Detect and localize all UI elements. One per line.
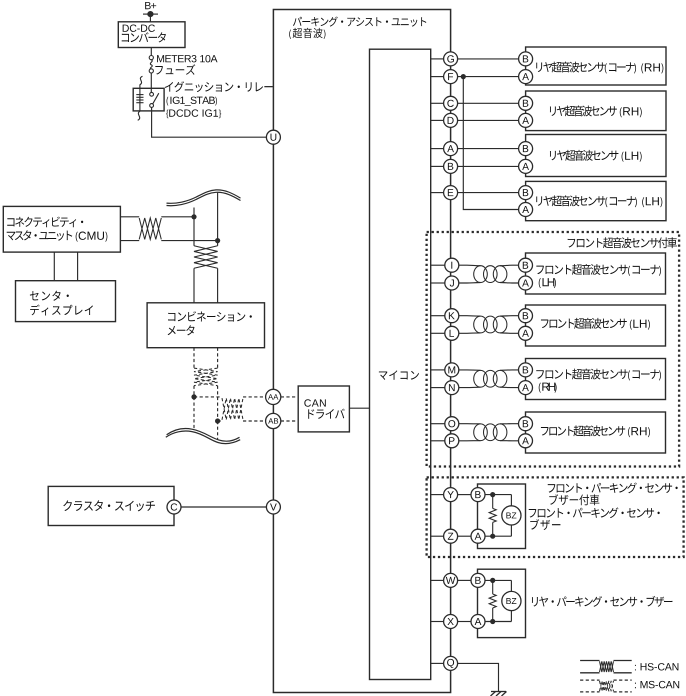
wire MS-CAN bbox=[243, 420, 266, 422]
rear sensor LH box bbox=[526, 135, 666, 177]
pin B bbox=[519, 186, 533, 200]
terminal N bbox=[445, 381, 459, 395]
pin A bbox=[519, 326, 533, 340]
wire MS-CAN bbox=[217, 421, 219, 439]
wire bbox=[161, 240, 217, 242]
pin B bbox=[471, 573, 485, 587]
rear parking buzzer box+resistor+BZ bbox=[478, 569, 526, 637]
front parking buzzer box+resistor+BZ bbox=[478, 484, 526, 549]
label: rear ultrasonic RH bbox=[550, 105, 642, 117]
label: with front parking sensor buzzer2 bbox=[549, 494, 599, 505]
wire bbox=[463, 77, 518, 210]
node junction F bbox=[461, 74, 466, 79]
wire MS-CAN bbox=[281, 420, 298, 422]
front sensor LH box bbox=[526, 305, 666, 346]
label: converter bbox=[122, 32, 166, 42]
twisted pair bbox=[459, 316, 519, 334]
wire bbox=[431, 621, 444, 623]
terminal K bbox=[445, 309, 459, 323]
parking assist unit box bbox=[273, 10, 450, 693]
pin A bbox=[519, 381, 533, 395]
twisted pair HS-CAN bbox=[139, 218, 161, 239]
label: (IG1_STAB) bbox=[167, 97, 217, 106]
pin B bbox=[519, 96, 533, 110]
wire bbox=[431, 387, 445, 389]
rear sensor RH box bbox=[526, 91, 666, 131]
label: MS-CAN bbox=[635, 681, 679, 688]
terminal C bbox=[167, 500, 181, 514]
wire bbox=[431, 662, 444, 664]
wire bbox=[193, 208, 195, 246]
label: DC-DC bbox=[123, 24, 155, 31]
terminal W bbox=[444, 573, 458, 587]
wire bbox=[431, 369, 445, 371]
terminal G bbox=[444, 52, 458, 66]
label: fuse bbox=[155, 64, 195, 75]
wire bbox=[458, 535, 471, 537]
wire bbox=[431, 76, 519, 78]
label: ignition relay bbox=[165, 81, 273, 92]
wire bbox=[431, 535, 444, 537]
fuse METER3 10A bbox=[149, 56, 153, 74]
wire bbox=[150, 73, 152, 94]
label: center bbox=[30, 291, 69, 301]
pin B bbox=[519, 363, 533, 377]
microcomputer box bbox=[370, 49, 431, 679]
node junction bbox=[191, 214, 196, 219]
label: (ultrasonic) bbox=[289, 28, 325, 39]
terminal AB bbox=[266, 413, 281, 428]
wire bbox=[349, 407, 369, 409]
terminal E bbox=[444, 186, 458, 200]
wire bbox=[193, 268, 195, 303]
wire bbox=[458, 621, 471, 623]
terminal Y bbox=[444, 488, 458, 502]
wire MS-CAN bbox=[281, 396, 298, 398]
legend HS-CAN symbol bbox=[580, 661, 632, 673]
wire bbox=[120, 216, 139, 218]
terminal M bbox=[445, 363, 459, 377]
terminal P bbox=[445, 434, 459, 448]
pin A bbox=[519, 434, 533, 448]
ground bbox=[491, 692, 507, 696]
terminal A bbox=[444, 142, 458, 156]
relay switch bbox=[150, 92, 159, 107]
front corner sensor RH box bbox=[526, 359, 666, 400]
pin A bbox=[519, 113, 533, 127]
label: front parking sensor buzzer2 bbox=[530, 519, 560, 530]
label: display bbox=[30, 305, 93, 316]
ignition relay box bbox=[133, 88, 164, 111]
label: (RH) bbox=[539, 383, 557, 393]
terminal V bbox=[266, 500, 280, 514]
node junction bbox=[191, 394, 196, 399]
wire bbox=[217, 268, 219, 303]
terminal L bbox=[445, 326, 459, 340]
wire bbox=[120, 240, 139, 242]
wire bbox=[431, 494, 444, 496]
rear corner sensor LH box bbox=[526, 181, 666, 220]
wire bbox=[161, 216, 194, 218]
label: master unit (CMU) bbox=[7, 230, 108, 242]
terminal C2 bbox=[444, 96, 458, 110]
twisted pair bbox=[459, 370, 519, 388]
wire MS-CAN bbox=[193, 386, 195, 397]
combination meter box bbox=[147, 303, 264, 348]
front corner sensor LH box bbox=[526, 253, 666, 294]
terminal J bbox=[445, 276, 459, 290]
node junction bbox=[215, 238, 220, 243]
terminal O bbox=[445, 417, 459, 431]
label: with front ultrasonic sensors bbox=[568, 237, 677, 248]
wire bbox=[431, 440, 445, 442]
terminal Z bbox=[444, 529, 458, 543]
connectivity master unit box bbox=[3, 206, 120, 252]
wire MS-CAN bbox=[217, 386, 219, 421]
DC-DC converter box bbox=[118, 22, 185, 48]
label: with front parking sensor buzzer1 bbox=[548, 482, 678, 493]
pin B bbox=[519, 258, 533, 272]
wire break wave bbox=[166, 429, 240, 444]
wire bbox=[77, 252, 79, 281]
wire bbox=[431, 264, 445, 266]
node junction bbox=[215, 418, 220, 423]
terminal F bbox=[444, 70, 458, 84]
terminal I bbox=[445, 258, 459, 272]
front sensor RH box bbox=[526, 412, 666, 453]
wire bbox=[431, 119, 519, 121]
wire MS-CAN bbox=[193, 348, 195, 368]
label: (LH) bbox=[539, 278, 556, 288]
label: front parking sensor buzzer1 bbox=[529, 507, 660, 518]
wire bbox=[217, 193, 219, 246]
label: front ultrasonic corner bbox=[536, 264, 661, 276]
pin B bbox=[519, 417, 533, 431]
label: combination bbox=[168, 311, 252, 321]
pin A bbox=[471, 529, 485, 543]
wire bbox=[431, 102, 519, 104]
pin A bbox=[519, 203, 533, 217]
terminal Q bbox=[444, 656, 458, 670]
wire bbox=[431, 332, 445, 334]
center display box bbox=[16, 281, 116, 322]
twisted pair HS-CAN bbox=[194, 246, 218, 268]
twisted pair bbox=[459, 424, 519, 441]
label: HS-CAN bbox=[635, 663, 678, 670]
pin A bbox=[471, 615, 485, 629]
wire bbox=[149, 14, 151, 22]
wire bbox=[431, 58, 519, 60]
label: front ultrasonic corner2 bbox=[536, 369, 661, 381]
legend MS-CAN symbol bbox=[580, 680, 632, 692]
rear corner sensor RH box bbox=[526, 47, 666, 85]
relay coil bbox=[136, 76, 143, 120]
label: METER3 10A bbox=[157, 55, 217, 62]
wire MS-CAN bbox=[243, 396, 266, 398]
cluster switch box bbox=[48, 486, 174, 525]
label: rear parking sensor buzzer bbox=[532, 596, 673, 607]
label: meter bbox=[168, 325, 195, 335]
label: front ultrasonic LH bbox=[541, 318, 650, 330]
twisted pair MS-CAN bbox=[194, 368, 218, 386]
label: front ultrasonic RH bbox=[541, 425, 650, 437]
label: driver bbox=[308, 409, 345, 419]
terminal X bbox=[444, 615, 458, 629]
label: rear ultrasonic corner LH bbox=[536, 195, 662, 207]
wire bbox=[431, 315, 445, 317]
dotted group: front ultrasonic sensors bbox=[427, 232, 679, 467]
terminal AA bbox=[266, 389, 281, 404]
wire bbox=[53, 252, 55, 281]
label: {DCDC IG1} bbox=[166, 109, 221, 118]
label: parking assist unit bbox=[293, 16, 426, 26]
pin B bbox=[519, 52, 533, 66]
label: cluster switch bbox=[63, 500, 155, 511]
wire bbox=[431, 165, 519, 167]
wire bbox=[458, 494, 471, 496]
CAN driver box bbox=[298, 386, 349, 432]
pin B bbox=[519, 309, 533, 323]
label: rear ultrasonic corner RH bbox=[536, 62, 663, 74]
label: B+ bbox=[145, 2, 156, 9]
wire MS-CAN bbox=[194, 396, 222, 398]
wire bbox=[152, 108, 267, 138]
wire bbox=[150, 48, 152, 56]
label: microcomputer bbox=[379, 370, 419, 380]
wire MS-CAN bbox=[218, 420, 222, 422]
wire break wave bbox=[167, 190, 241, 206]
pin B bbox=[519, 142, 533, 156]
twisted pair MS-CAN bbox=[222, 398, 243, 420]
terminal U bbox=[266, 130, 280, 144]
pin A bbox=[519, 70, 533, 84]
label: CAN bbox=[304, 399, 325, 406]
pin A bbox=[519, 276, 533, 290]
wire bbox=[458, 663, 499, 691]
wire bbox=[431, 423, 445, 425]
twisted pair bbox=[459, 265, 519, 283]
wire bbox=[431, 282, 445, 284]
wire bbox=[431, 148, 519, 150]
terminal D bbox=[444, 113, 458, 127]
terminal B bbox=[444, 159, 458, 173]
label: connectivity bbox=[7, 217, 83, 228]
wire bbox=[431, 192, 519, 194]
dotted group: front parking sensor buzzer bbox=[427, 477, 684, 557]
wire MS-CAN bbox=[217, 348, 219, 368]
B+ terminal bbox=[143, 11, 158, 17]
wire MS-CAN bbox=[193, 397, 195, 429]
wire bbox=[431, 579, 444, 581]
label: rear ultrasonic LH bbox=[550, 150, 642, 162]
pin A bbox=[519, 159, 533, 173]
wire bbox=[181, 506, 266, 508]
wire bbox=[458, 579, 471, 581]
pin B bbox=[471, 488, 485, 502]
